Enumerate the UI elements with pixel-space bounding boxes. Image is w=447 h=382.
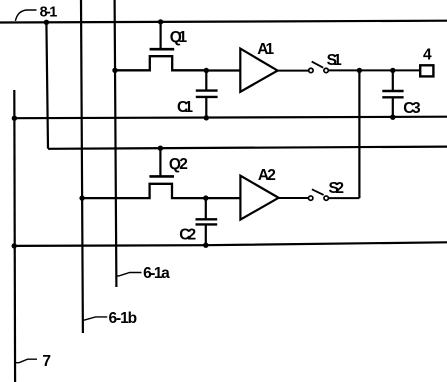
op-amp A1 triangle: [240, 49, 277, 92]
svg-text:C1: C1: [177, 99, 193, 116]
wire vertical branch from 8-1 to row3: [46, 22, 48, 148]
node dot 8-1 branch: [44, 20, 49, 25]
wire A1 to S1: [278, 70, 309, 72]
terminal 4 square: [420, 65, 433, 76]
wire vertical line 7: [13, 90, 16, 382]
switch S1 contacts: [309, 68, 313, 72]
node dot Q1 drain / C1: [204, 68, 209, 73]
leader for label 7: [15, 359, 37, 363]
svg-text:Q2: Q2: [169, 156, 188, 173]
wire vertical line 6-1b: [81, 0, 83, 333]
node dot Q1 gate on top bus: [158, 19, 163, 24]
leader for label 6-1a: [117, 273, 142, 276]
switch S1 lever: [312, 62, 324, 68]
transistor Q1 gate lead: [160, 22, 162, 49]
capacitor C3 bottom lead: [392, 97, 394, 117]
capacitor C2 top lead: [205, 198, 207, 219]
svg-text:S1: S1: [327, 52, 343, 69]
node dot C1 bottom: [204, 115, 209, 120]
svg-text:4: 4: [423, 46, 432, 63]
wire S2 to node: [328, 197, 359, 199]
wire Q1 to A1: [206, 69, 240, 71]
svg-text:C2: C2: [179, 227, 196, 244]
svg-text:Q1: Q1: [170, 29, 188, 46]
node dot row2 left end: [12, 116, 17, 121]
transistor Q2 gate lead: [159, 148, 161, 176]
op-amp A2 triangle: [240, 176, 278, 220]
capacitor C1 top lead: [205, 71, 207, 91]
wire A2 to S2: [279, 197, 309, 199]
node dot Q2 drain / C2: [203, 195, 208, 200]
wire bus bottom (y=244): [14, 242, 447, 246]
capacitor C2 bottom lead: [205, 224, 207, 245]
capacitor C3 top lead: [392, 70, 394, 90]
svg-text:8-1: 8-1: [40, 4, 58, 20]
leader for label 6-1b: [82, 317, 107, 320]
capacitor C2 plates: [196, 218, 218, 220]
svg-text:A2: A2: [258, 167, 276, 184]
svg-text:S2: S2: [329, 180, 345, 197]
switch S2 contacts: [309, 196, 313, 200]
wire Q2 to A2: [206, 197, 240, 199]
transistor Q2 gate bar: [149, 175, 174, 178]
svg-text:A1: A1: [257, 41, 274, 58]
switch S2 lever: [312, 189, 324, 195]
transistor Q2 channel: [82, 184, 206, 198]
capacitor C3 plates: [382, 90, 403, 92]
node dot Q2 source on 6-1b: [79, 195, 84, 200]
node dot C2 bottom: [203, 243, 208, 248]
wire bus 8-1 horizontal top: [0, 21, 447, 23]
wire vertical line 6-1a: [115, 0, 117, 287]
transistor Q1 channel: [115, 56, 206, 70]
node dot bottom bus left end: [12, 243, 17, 248]
svg-text:7: 7: [42, 353, 51, 370]
node dot C3 top: [390, 68, 395, 73]
svg-text:C3: C3: [403, 100, 421, 117]
leader for label 8-1: [15, 10, 36, 21]
wire bus row3 (y=148): [48, 147, 447, 149]
node dot Q1 source on 6-1a: [112, 68, 117, 73]
transistor Q1 gate bar: [150, 48, 175, 51]
wire node S1 down to S2: [358, 70, 360, 198]
wire S1 to terminal 4: [328, 69, 420, 71]
wire bus row2 (y=118): [14, 117, 447, 119]
svg-text:6-1b: 6-1b: [109, 310, 138, 327]
node dot C3 bottom: [390, 115, 395, 120]
svg-text:6-1a: 6-1a: [143, 265, 170, 282]
node dot S1 output branch: [357, 68, 362, 73]
node dot Q2 gate on row3: [158, 146, 163, 151]
capacitor C1 bottom lead: [205, 97, 207, 118]
capacitor C1 plates: [196, 89, 218, 91]
